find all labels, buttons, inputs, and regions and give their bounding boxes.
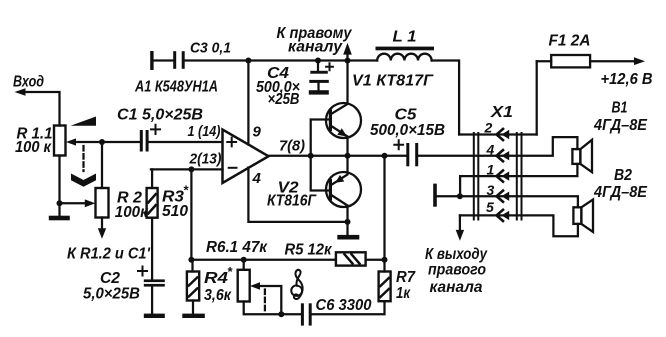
svg-text:F1 2А: F1 2А [549,33,591,50]
svg-text:+12,6 В: +12,6 В [601,71,653,88]
R1.1 adjustment wedge upper [71,117,97,126]
wire R2 top [101,142,103,188]
wire inverting input 2(13) [151,168,223,170]
svg-text:100к: 100к [115,204,149,221]
wire R3 to C2 [151,218,153,280]
R2 bottom arrow К R1.2 и C1' [101,218,103,230]
svg-text:В2: В2 [614,167,632,184]
input arrow Вход [22,92,60,126]
ground under V2 [346,222,348,235]
terminal bar left of C3 [150,51,153,70]
ground under C4 [309,90,329,94]
svg-text:5,0×25В: 5,0×25В [83,286,140,303]
wire output node down to R5/R7 [383,156,385,272]
resistor R4 body [187,272,199,301]
svg-text:С3 0,1: С3 0,1 [190,40,231,57]
svg-text:*: * [183,183,189,198]
op-amp minus input symbol [229,167,237,169]
R1.1 coupling wedge lower [71,174,96,187]
svg-text:×25В: ×25В [268,91,300,108]
ground under R1.1 [58,203,60,215]
svg-text:2: 2 [484,120,493,136]
node emitter junction [345,153,351,159]
wire R1.1 bottom [58,156,60,204]
node R6.1 top [241,257,247,263]
node V1 collector / arrow [345,58,351,64]
wire R6.1 bottom [244,302,302,315]
svg-text:4: 4 [252,170,262,187]
R2 wiper arrow wire [60,202,86,204]
wire L1 to X1 pin2 [432,61,460,135]
X1 row pin 3 (B2 top / common) [437,196,578,207]
node wiper/R2 junction [99,139,105,145]
V1 emitter wire with arrow [332,127,348,156]
V1 base wire [311,120,329,156]
svg-text:С6 3300: С6 3300 [316,297,372,314]
resistor R1.1 (potentiometer body) [54,126,66,156]
wire C1 to op-amp [149,141,223,143]
capacitor C6 [301,303,304,325]
node V2 collector / pin4 ground [345,219,351,225]
node R5/R7 [382,257,388,263]
svg-text:С1 5,0×25В: С1 5,0×25В [117,107,203,124]
node C4 tap [315,58,321,64]
svg-text:К R1.2 и С1': К R1.2 и С1' [67,246,151,263]
ground under C2 [144,314,165,318]
svg-text:L 1: L 1 [393,29,417,46]
wire R3 top stub [151,169,153,188]
resistor R7 body [379,272,391,302]
wire R5 to output column [366,259,385,261]
wire pin 9 power [247,61,249,145]
wire F1 down to X1 pin2 [536,61,538,134]
capacitor C3 [154,59,174,61]
potentiometer R6.1 body [238,270,250,302]
wire feedback line [191,259,336,261]
wire R4 stub top [191,260,193,272]
transistor V2 circle [326,172,361,207]
svg-text:3: 3 [487,182,495,198]
svg-text:А1 К548УН1А: А1 К548УН1А [134,79,218,96]
svg-text:3,6к: 3,6к [204,287,232,304]
wire top rail [185,59,377,61]
V1 collector wire [332,61,348,114]
X1 row pin 5 (B2 bottom) [460,215,578,236]
inductor L1 [376,47,435,51]
node output/C5 [382,153,388,159]
node feedback/R4 [188,257,194,263]
op-amp plus input symbol [227,138,236,147]
svg-text:R7: R7 [396,269,416,286]
resistor R5 body [336,252,366,265]
svg-text:В1: В1 [612,100,628,117]
node base junction [308,153,314,159]
svg-text:1 (14): 1 (14) [188,123,221,140]
capacitor C5 [406,143,409,166]
op-amp U A1 triangle [223,130,269,184]
V2 base wire [311,156,329,191]
resistor R2 body [96,188,109,218]
ground under R4 [182,314,205,318]
svg-text:4: 4 [486,142,495,158]
V2 emitter wire with arrow [332,156,348,185]
wire C6 to R7 [312,301,385,314]
svg-text:*: * [227,264,233,279]
svg-text:R5 12к: R5 12к [285,242,333,259]
svg-text:1: 1 [487,162,495,178]
wire R6.1 top stub [243,260,245,270]
resistor R3 body [147,188,158,218]
fuse F1 [537,60,552,62]
capacitor C4 [317,61,319,71]
wire R4 bottom [192,301,194,314]
V1 base bar [329,110,332,132]
svg-text:510: 510 [162,203,188,220]
capacitor C1 [140,130,143,152]
speaker B1 [572,149,580,164]
R6.1 wiper arrow [250,282,260,289]
X1 row pin 2 [459,133,537,135]
svg-text:канала: канала [430,279,483,296]
svg-text:Вход: Вход [13,74,44,91]
arrow to right channel (up) [346,54,348,61]
arrow to right channel output (down) [459,215,461,230]
V2 base bar [329,179,332,201]
svg-text:правого: правого [428,262,486,279]
svg-text:7(8): 7(8) [279,138,305,155]
X1 row pin 1 (B1 return) [460,164,577,196]
svg-text:С5: С5 [395,107,417,124]
mechanical coupling dashed line [82,146,84,171]
speaker B2 [573,207,581,224]
node pin9 tap [245,58,251,64]
svg-text:X1: X1 [490,104,513,121]
connector X1 body lines [474,133,522,220]
wire pin 4 to ground rail [248,168,347,222]
treble clef symbol [291,285,302,296]
node wiper bottom [278,311,284,317]
svg-text:R6.1 47к: R6.1 47к [206,239,268,256]
V2 collector wire [332,196,348,222]
capacitor C2 [144,279,165,282]
svg-text:2(13): 2(13) [189,151,222,168]
transistor V1 circle [326,103,361,138]
node R1.1 bottom junction [57,200,63,206]
svg-text:100 к: 100 к [15,139,52,156]
wire op-amp output line [269,155,407,157]
svg-text:1к: 1к [396,285,411,302]
svg-text:V1 КТ817Г: V1 КТ817Г [352,73,435,90]
wire wiper to C1 [74,141,140,143]
svg-text:R4: R4 [204,270,228,287]
node common/output-to-right-channel [457,193,463,199]
svg-text:5: 5 [486,199,494,215]
svg-text:К выходу: К выходу [425,246,488,263]
svg-text:каналу: каналу [288,39,343,56]
svg-text:КТ816Г: КТ816Г [267,193,317,210]
terminal bar row 3 [433,184,437,207]
svg-text:9: 9 [253,124,262,141]
R6.1 mechanical dashed line [264,290,266,312]
R1.1 wiper arrow [66,138,76,145]
node on 2(13) line [188,166,194,172]
svg-text:500,0×15В: 500,0×15В [370,122,445,139]
wire 2(13) down to feedback node [190,169,192,259]
svg-text:С2: С2 [100,270,120,287]
svg-text:4ГД–8Е: 4ГД–8Е [593,184,648,201]
X1 row pin 4 (wire from C5 to B1) [418,137,577,156]
svg-text:4ГД–8Е: 4ГД–8Е [593,117,648,134]
